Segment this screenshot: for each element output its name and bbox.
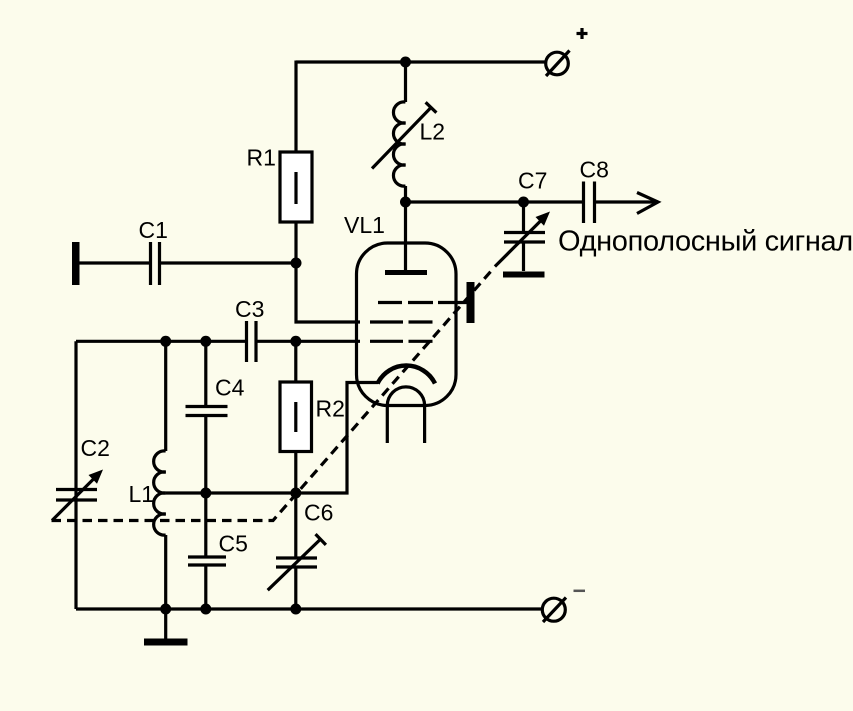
- wire anode to C7 node: [406, 200, 524, 203]
- terminal minus: [542, 598, 566, 623]
- capacitor C5: [188, 493, 226, 609]
- svg-text:R2: R2: [316, 396, 345, 422]
- C6 adjuster slash: [268, 534, 326, 590]
- ground main: [144, 609, 188, 646]
- svg-text:C8: C8: [580, 157, 609, 183]
- VL1 grid 3: [370, 340, 433, 343]
- svg-text:VL1: VL1: [344, 212, 385, 238]
- C2 arrow: [52, 470, 103, 521]
- node R2 top: [290, 336, 301, 347]
- capacitor C8: [584, 182, 595, 224]
- svg-text:L1: L1: [129, 481, 155, 507]
- node tap C4: [200, 488, 211, 499]
- node top rail / L2 junction: [400, 57, 411, 68]
- svg-text:C5: C5: [219, 531, 248, 557]
- svg-text:C3: C3: [235, 296, 264, 322]
- wire C1 to grid node: [161, 261, 296, 264]
- tube VL1 envelope: [357, 243, 457, 406]
- L2 adjuster slash: [372, 102, 436, 168]
- inductor L1: [154, 341, 166, 609]
- svg-text:C7: C7: [518, 168, 547, 194]
- node L1 bottom: [160, 604, 171, 615]
- wire node to grid 2: [296, 263, 360, 322]
- label minus: [574, 590, 586, 593]
- label +: [577, 28, 588, 39]
- svg-text:C2: C2: [81, 435, 110, 461]
- node C4 top: [200, 336, 211, 347]
- C7 arrow: [495, 212, 550, 267]
- VL1 anode: [385, 202, 427, 273]
- node L1 top: [160, 336, 171, 347]
- capacitor C1: [151, 242, 160, 285]
- capacitor C7 variable: [504, 202, 545, 271]
- resistor R1: [280, 152, 312, 222]
- VL1 grid 2: [370, 320, 433, 323]
- wire grid3 line left: [76, 340, 245, 343]
- wire R1 bottom: [294, 222, 297, 263]
- wire L1 tap: [166, 491, 206, 494]
- ground C7: [503, 272, 545, 278]
- svg-text:C4: C4: [215, 375, 245, 401]
- node C5 bottom: [200, 604, 211, 615]
- capacitor C2 variable: [56, 490, 97, 501]
- wire left branch through C2: [74, 341, 77, 609]
- wire tap to cathode node: [206, 491, 296, 494]
- bottom rail: [76, 607, 542, 610]
- gang link dashed: [52, 270, 493, 521]
- VL1 cathode: [378, 366, 436, 384]
- node C7: [518, 197, 529, 208]
- svg-text:R1: R1: [247, 145, 276, 171]
- svg-text:C6: C6: [304, 500, 333, 526]
- node R1 C1: [291, 258, 302, 269]
- terminal plus: [546, 51, 570, 77]
- output arrowhead: [637, 193, 658, 214]
- wire input to C1: [80, 261, 150, 264]
- wire cathode to node: [296, 383, 378, 494]
- VL1 top cap terminal: [467, 282, 475, 323]
- capacitor C6 variable: [276, 493, 317, 609]
- wire C7 node to C8: [524, 200, 583, 203]
- node anode: [400, 197, 411, 208]
- resistor R2: [280, 341, 312, 493]
- wire R1 top: [294, 61, 297, 153]
- node cathode R2 C6: [290, 488, 301, 499]
- VL1 heater: [387, 387, 424, 443]
- capacitor C3: [247, 321, 257, 362]
- VL1 grid 1: [378, 301, 467, 304]
- svg-text:L2: L2: [420, 119, 446, 145]
- wire top supply rail: [296, 60, 546, 63]
- input terminal bar: [72, 242, 80, 285]
- svg-text:C1: C1: [139, 217, 168, 243]
- wire grid3 line right: [258, 340, 361, 343]
- capacitor C4: [186, 341, 228, 493]
- node C6 bottom: [290, 604, 301, 615]
- wire C8 to output: [596, 200, 658, 203]
- inductor L2: [393, 62, 405, 202]
- svg-text:Однополосный сигнал: Однополосный сигнал: [558, 226, 853, 258]
